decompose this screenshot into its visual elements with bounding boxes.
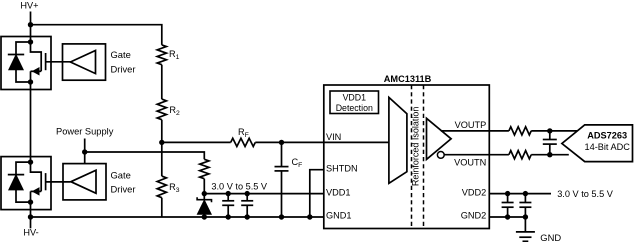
label R1	[169, 49, 180, 61]
wire Q1 gate	[46, 61, 71, 63]
wire VDD2 line	[489, 193, 551, 195]
wire R1-R2	[161, 65, 163, 99]
wire HV+ vertical	[30, 12, 32, 37]
wire Q2 gate	[46, 181, 71, 183]
capacitor C4	[519, 194, 531, 217]
junction HV+ rail	[28, 22, 33, 27]
svg-text:Gate: Gate	[111, 49, 131, 60]
pin GND2	[461, 211, 487, 221]
wire VOUTN left	[444, 154, 509, 156]
junction VDD1 node	[202, 191, 207, 196]
label 3.0 V to 5.5 V (left)	[211, 181, 268, 191]
label R3	[169, 182, 180, 194]
capacitor differential	[543, 131, 557, 155]
wire Q2 emitter to rail	[30, 210, 32, 229]
svg-text:VDD2: VDD2	[462, 187, 487, 197]
wire GND1 rail	[31, 216, 324, 218]
svg-text:ADS7263: ADS7263	[587, 131, 627, 141]
wire VOUTP right	[531, 130, 577, 132]
junction C2 bottom	[245, 214, 250, 219]
junction VOUTP cap	[547, 128, 552, 133]
svg-text:VDD1: VDD1	[343, 93, 367, 103]
transistor Q1 IGBT module (top)	[1, 37, 51, 90]
output amplifier triangle	[427, 118, 452, 159]
wire between IGBTs	[30, 90, 32, 158]
junction CF bottom	[279, 214, 284, 219]
label AMC1311B	[384, 74, 432, 84]
junction HV- rail	[28, 214, 33, 219]
junction C4 bottom	[523, 214, 528, 219]
junction CF top	[279, 140, 284, 145]
resistor R3	[157, 176, 166, 198]
svg-text:HV-: HV-	[23, 228, 38, 238]
junction SHTDN-GND1	[307, 214, 312, 219]
svg-text:Reinforced Isolation: Reinforced Isolation	[410, 107, 420, 187]
VDD1 detection block	[330, 91, 379, 114]
resistor R2	[157, 99, 166, 120]
svg-text:AMC1311B: AMC1311B	[384, 74, 432, 84]
label ADS7263	[587, 131, 627, 141]
wire top rail to R1	[31, 25, 162, 45]
op-amp U1 AMC1311B box	[324, 85, 490, 229]
node Power Supply label	[56, 127, 114, 137]
junction C2 top	[245, 191, 250, 196]
svg-text:3.0 V to 5.5 V: 3.0 V to 5.5 V	[557, 189, 614, 199]
wire resistor to VDD1 node	[203, 179, 205, 194]
wire SHTDN tie-down	[310, 170, 324, 217]
junction C3 top	[505, 191, 510, 196]
wire tap to RF	[162, 141, 231, 143]
junction C1 top	[226, 191, 231, 196]
svg-text:GND1: GND1	[326, 211, 352, 221]
wire RF to VIN	[255, 141, 389, 143]
wire VOUTP left	[441, 130, 509, 132]
inverting output bubble	[437, 152, 444, 159]
svg-text:Gate: Gate	[111, 169, 131, 180]
junction C3 bottom	[505, 214, 510, 219]
junction power supply	[82, 149, 87, 154]
label GND	[540, 232, 561, 242]
svg-text:GND2: GND2	[461, 211, 487, 221]
wire R3 to rail	[161, 198, 163, 217]
svg-text:SHTDN: SHTDN	[326, 163, 358, 173]
wire R2 to tap	[161, 120, 163, 143]
label Reinforced Isolation	[410, 107, 420, 187]
pin VOUTN	[454, 158, 486, 168]
svg-text:Power Supply: Power Supply	[56, 127, 114, 137]
svg-text:VOUTP: VOUTP	[455, 120, 487, 130]
label R2	[169, 105, 180, 117]
wire VDD1 node to zener	[203, 194, 205, 200]
svg-text:VDD1: VDD1	[326, 187, 351, 197]
capacitor C2	[241, 194, 253, 217]
resistor RF	[231, 138, 256, 146]
pin SHTDN	[326, 163, 358, 173]
junction VIN tap	[159, 140, 164, 145]
wire VDD1 line	[204, 193, 323, 195]
wire power supply stub	[84, 139, 86, 164]
label RF	[238, 127, 249, 139]
input amplifier trapezoid	[389, 97, 407, 183]
wire tap to R3	[161, 142, 163, 176]
diode D1 zener	[197, 197, 211, 217]
wire VOUTN right	[531, 154, 569, 156]
pin VDD1	[326, 187, 351, 197]
wire to ground symbol	[524, 217, 526, 232]
label CF	[292, 157, 303, 169]
gate driver label (top)	[111, 49, 136, 74]
capacitor C1	[222, 194, 234, 217]
svg-text:Driver: Driver	[111, 184, 136, 195]
svg-text:GND: GND	[540, 232, 561, 242]
pin VOUTP	[455, 120, 487, 130]
resistor output P	[509, 127, 531, 135]
op-amp gate driver buffer (top)	[63, 44, 106, 80]
op-amp gate driver buffer (bottom)	[63, 164, 106, 200]
capacitor CF	[275, 142, 289, 217]
isolation barrier dashed lines	[412, 85, 424, 229]
op-amp U2 ADS7263 ADC	[562, 125, 633, 162]
capacitor C3	[502, 194, 514, 217]
junction C1 bottom	[226, 214, 231, 219]
svg-text:Driver: Driver	[111, 63, 136, 74]
svg-text:VOUTN: VOUTN	[454, 158, 486, 168]
svg-text:VIN: VIN	[326, 132, 341, 142]
svg-text:3.0 V to 5.5 V: 3.0 V to 5.5 V	[211, 181, 268, 191]
svg-text:HV+: HV+	[20, 1, 38, 11]
junction zener-rail	[202, 214, 207, 219]
node HV- label	[23, 228, 38, 238]
ground	[516, 232, 535, 241]
pin GND1	[326, 211, 352, 221]
junction C4 top	[523, 191, 528, 196]
resistor R1	[157, 45, 166, 65]
junction VOUTN cap	[547, 152, 552, 157]
wire power supply to series resistor	[85, 152, 205, 159]
svg-text:14-Bit ADC: 14-Bit ADC	[584, 142, 630, 152]
pin VDD2	[462, 187, 487, 197]
pin VIN	[326, 132, 341, 142]
resistor (power-supply series)	[200, 159, 209, 178]
transistor Q2 IGBT module (bottom)	[1, 157, 51, 210]
gate driver label (bottom)	[111, 169, 136, 194]
svg-text:Detection: Detection	[336, 103, 373, 113]
wire GND2 line	[489, 216, 525, 218]
node HV+ label	[20, 1, 38, 11]
label 14-Bit ADC	[584, 142, 630, 152]
resistor output N	[509, 151, 531, 159]
label 3.0 V to 5.5 V (right)	[557, 189, 614, 199]
